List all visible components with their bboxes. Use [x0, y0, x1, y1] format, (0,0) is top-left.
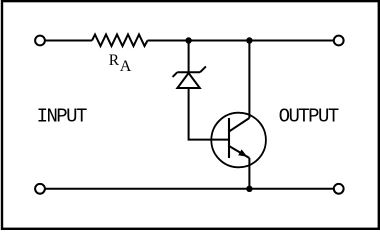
node junction emitter: [246, 186, 252, 192]
wire top rail right: [148, 40, 334, 42]
resistor RA: [92, 35, 148, 47]
terminal bottom-right: [334, 184, 344, 194]
node junction collector: [246, 37, 252, 43]
svg-text:OUTPUT: OUTPUT: [279, 106, 339, 128]
node junction zener: [185, 37, 191, 43]
wire emitter: [248, 158, 250, 189]
terminal top-right: [334, 36, 344, 46]
svg-text:INPUT: INPUT: [37, 106, 87, 128]
transistor Q1: [211, 113, 266, 168]
terminal top-left: [35, 36, 45, 46]
wire zener to base: [189, 88, 229, 140]
svg-text:A: A: [120, 58, 132, 75]
wire collector: [248, 41, 250, 119]
zener diode D1: [173, 66, 206, 88]
svg-text:R: R: [109, 52, 120, 69]
terminal bottom-left: [35, 184, 45, 194]
wire bottom rail: [45, 188, 334, 190]
wire top rail left: [45, 40, 92, 42]
wire zener branch: [188, 41, 190, 73]
